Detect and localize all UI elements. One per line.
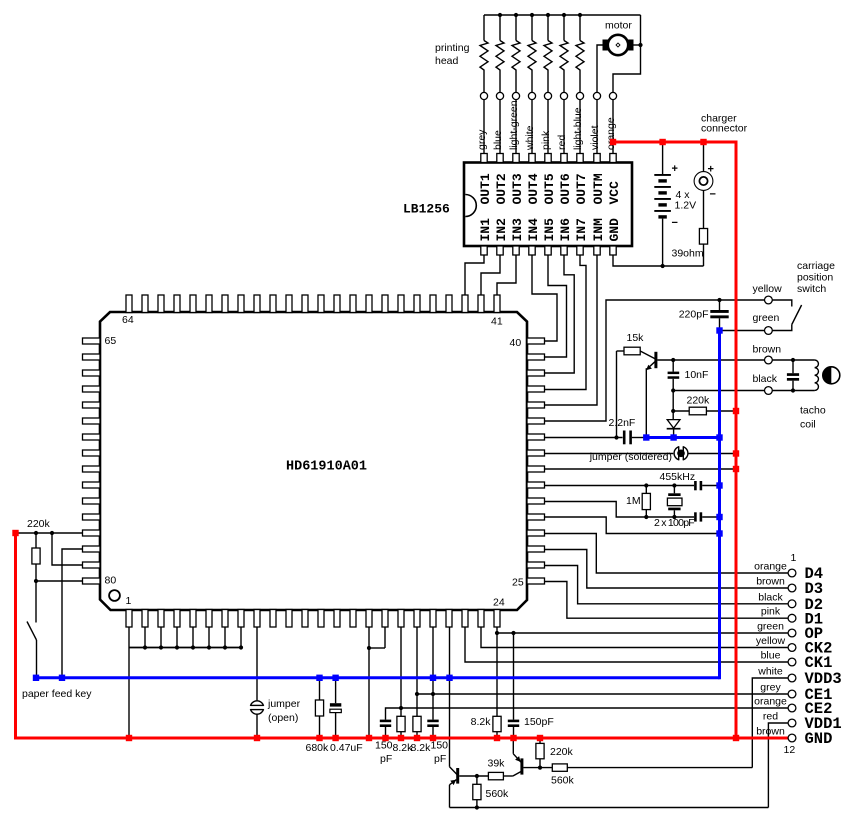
red wire left top end square bbox=[12, 530, 18, 536]
pin 1 marker circle bbox=[109, 590, 120, 601]
blue wire 2.2nF row bbox=[644, 436, 720, 439]
svg-text:coil: coil bbox=[800, 419, 816, 431]
battery B1 4x1.2V bbox=[654, 174, 671, 176]
resistor 220k (bottom) bbox=[539, 739, 541, 743]
svg-text:carriage: carriage bbox=[797, 260, 835, 272]
resistor 1M bbox=[645, 486, 647, 494]
svg-text:1M: 1M bbox=[626, 495, 641, 507]
svg-text:IN7: IN7 bbox=[574, 218, 589, 241]
junction 1M top bbox=[644, 483, 648, 487]
junction 1M bottom bbox=[644, 515, 648, 519]
jumper (soldered) J2 bbox=[674, 446, 688, 460]
tacho coil L1 bbox=[815, 360, 819, 390]
connector pin circle x=613 bbox=[609, 92, 616, 99]
svg-text:65: 65 bbox=[105, 335, 117, 347]
wire 560k to VDD3 column bbox=[567, 767, 752, 769]
LB1256 top pin OUT5 bbox=[545, 154, 551, 163]
resistor printing-head R1 bbox=[483, 15, 485, 41]
wire 39k to Q2 collector bbox=[503, 775, 513, 777]
wire top bus to motor right brush and orange column bbox=[613, 15, 641, 92]
resistor printing-head R5 bbox=[547, 15, 549, 41]
red wire right vertical bbox=[735, 141, 738, 740]
svg-text:jumper (soldered): jumper (soldered) bbox=[589, 451, 672, 463]
capacitor 10nF bbox=[672, 360, 674, 372]
svg-text:IN5: IN5 bbox=[542, 218, 557, 242]
LB1256 top pin OUT2 bbox=[497, 154, 503, 163]
junction tacho cap top bbox=[791, 358, 795, 362]
junction motor right brush bbox=[638, 43, 642, 47]
svg-text:paper feed key: paper feed key bbox=[22, 688, 92, 700]
wire pin 26 to D2 bbox=[545, 566, 789, 604]
svg-text:1: 1 bbox=[791, 552, 797, 564]
connector pin VDD1 bbox=[788, 719, 796, 727]
junction tacho cap bottom bbox=[791, 388, 795, 392]
svg-text:yellow: yellow bbox=[756, 635, 786, 647]
resistor 220k (top left) bbox=[35, 533, 37, 548]
connector pin circle x=548 bbox=[544, 92, 551, 99]
LB1256 top pin OUTM bbox=[594, 154, 600, 163]
svg-text:white: white bbox=[757, 666, 783, 678]
svg-text:2 x 100pF: 2 x 100pF bbox=[654, 517, 694, 529]
connector pin circle x=597 bbox=[593, 92, 600, 99]
resistor 8.2k (2) bbox=[416, 694, 418, 716]
junction 15k tap bbox=[614, 435, 618, 439]
svg-text:560k: 560k bbox=[486, 788, 510, 800]
svg-text:OUT1: OUT1 bbox=[478, 173, 493, 204]
svg-text:brown: brown bbox=[753, 344, 782, 356]
wire pin 77 row (black part) bbox=[16, 532, 83, 534]
wire CE1 row bbox=[417, 693, 788, 695]
svg-text:pink: pink bbox=[761, 606, 781, 618]
connector pin CE2 bbox=[788, 704, 796, 712]
svg-text:15k: 15k bbox=[627, 332, 645, 344]
connector pin circle x=484 bbox=[480, 92, 487, 99]
junction Q2 base / 220k bbox=[538, 766, 542, 770]
junction resonator bottom bbox=[672, 515, 676, 519]
svg-text:−: − bbox=[710, 189, 716, 201]
capacitor 0.47uF bbox=[335, 678, 337, 703]
svg-text:IN3: IN3 bbox=[510, 218, 525, 242]
svg-text:0.47uF: 0.47uF bbox=[330, 742, 363, 754]
wire pin 35 to yellow switch row bbox=[545, 300, 765, 421]
LB1256 bottom pin IN7 bbox=[577, 246, 583, 255]
resistor 680k bbox=[319, 678, 321, 700]
wire pin 28 to D4 bbox=[545, 534, 789, 574]
junction Q1 base / 560k bbox=[475, 774, 479, 778]
svg-text:220k: 220k bbox=[27, 518, 51, 530]
LB1256 top pin VCC bbox=[610, 154, 616, 163]
red wire bottom bbox=[15, 737, 788, 740]
resistor 8.2k (1) bbox=[400, 708, 402, 716]
LB1256 bottom pin IN5 bbox=[545, 246, 551, 255]
junction battery minus on GND bus bbox=[661, 264, 665, 268]
connector pin D1 bbox=[788, 614, 796, 622]
svg-text:IN6: IN6 bbox=[558, 218, 573, 242]
HD61910A01 top pins 64-41 bbox=[126, 295, 132, 313]
svg-text:switch: switch bbox=[797, 283, 826, 295]
junction 220pF top bbox=[717, 298, 721, 302]
svg-text:OUT5: OUT5 bbox=[542, 173, 557, 204]
transistor Q3 bbox=[640, 351, 655, 359]
svg-text:orange: orange bbox=[754, 696, 787, 708]
svg-text:+: + bbox=[672, 163, 678, 175]
wire pin 20 down bbox=[432, 627, 434, 694]
wire pin 21 to Q1 collector bbox=[449, 627, 451, 767]
svg-text:IN4: IN4 bbox=[526, 218, 541, 242]
resistor printing-head R4 bbox=[531, 15, 533, 41]
junction pin 80 row bbox=[34, 579, 38, 583]
wire Q3 emitter to blue node bbox=[645, 368, 647, 437]
LB1256 bottom pin IN4 bbox=[529, 246, 535, 255]
svg-text:motor: motor bbox=[605, 20, 632, 32]
svg-text:24: 24 bbox=[493, 597, 505, 609]
svg-text:10nF: 10nF bbox=[685, 369, 709, 381]
junction 220k top-left bbox=[34, 531, 38, 535]
wire pin 34 to 2.2nF bbox=[545, 437, 623, 439]
svg-text:tacho: tacho bbox=[800, 405, 826, 417]
connector pin circle x=564 bbox=[560, 92, 567, 99]
wire IN5 to pin 39 bbox=[545, 256, 567, 358]
IC U2 LB1256 body bbox=[464, 163, 632, 247]
svg-text:220k: 220k bbox=[550, 746, 574, 758]
svg-text:OUT3: OUT3 bbox=[510, 173, 525, 204]
connector pin D2 bbox=[788, 600, 796, 608]
svg-text:560k: 560k bbox=[551, 775, 575, 787]
resistor 8.2k (3) bbox=[496, 633, 498, 716]
wire pin 23 to CK2 bbox=[481, 627, 788, 648]
wire Q2 base row bbox=[523, 767, 552, 769]
resistor 220k (mid right) bbox=[673, 410, 689, 412]
transistor Q2 bbox=[512, 739, 514, 754]
wire INM to pin 36 bbox=[545, 256, 598, 406]
capacitor 2.2nF bbox=[623, 431, 626, 445]
svg-text:(open): (open) bbox=[268, 712, 298, 724]
svg-text:violet: violet bbox=[589, 125, 601, 150]
LB1256 bottom pin IN1 bbox=[481, 246, 487, 255]
svg-text:GND: GND bbox=[607, 218, 622, 242]
svg-text:680k: 680k bbox=[306, 742, 330, 754]
svg-text:yellow: yellow bbox=[753, 283, 783, 295]
transistor Q1 bbox=[450, 767, 458, 775]
capacitor tacho bbox=[792, 360, 794, 373]
svg-text:80: 80 bbox=[105, 575, 117, 587]
wire 10nF bottom to tacho black row bbox=[673, 390, 764, 392]
resistor printing-head R3 bbox=[515, 15, 517, 41]
resistor printing-head R7 bbox=[579, 15, 581, 41]
wire VDD3 white column bbox=[752, 678, 788, 768]
wire pin 22 to CK1 bbox=[465, 627, 788, 662]
LB1256 bottom pin IN2 bbox=[497, 246, 503, 255]
HD61910A01 bottom pins 1-24 bbox=[126, 610, 132, 628]
junction 10nF bottom bbox=[671, 388, 675, 392]
wire pin 31 455kHz row bbox=[545, 485, 695, 487]
wire pin 18 down bbox=[400, 627, 402, 708]
svg-text:39ohm: 39ohm bbox=[672, 248, 704, 260]
svg-text:red: red bbox=[556, 135, 568, 150]
carriage switch yellow contact bbox=[765, 296, 773, 304]
LB1256 bottom pin INM bbox=[594, 246, 600, 255]
junction resonator top bbox=[672, 483, 676, 487]
wire Q1 base bbox=[459, 775, 488, 777]
resistor 15k bbox=[617, 350, 625, 352]
svg-text:grey: grey bbox=[476, 129, 488, 150]
connector pin D3 bbox=[788, 584, 796, 592]
svg-text:455kHz: 455kHz bbox=[660, 471, 696, 483]
svg-text:IN2: IN2 bbox=[494, 218, 509, 242]
svg-text:40: 40 bbox=[510, 337, 522, 349]
svg-text:OUT2: OUT2 bbox=[494, 173, 509, 204]
HD61910A01 left pins 65-80 bbox=[83, 338, 101, 344]
wire node to 220k and diode bbox=[672, 391, 674, 420]
junction pins 16/17 bbox=[367, 646, 371, 650]
resistor printing-head R6 bbox=[563, 15, 565, 41]
svg-text:+: + bbox=[708, 164, 714, 176]
svg-text:12: 12 bbox=[784, 744, 796, 756]
svg-text:39k: 39k bbox=[488, 758, 506, 770]
wire IN1 to pin 43 bbox=[465, 256, 484, 296]
svg-text:OUT7: OUT7 bbox=[574, 173, 589, 204]
resistor 560k (1) bbox=[476, 776, 478, 784]
wire pin 33 to soldered jumper bbox=[545, 453, 674, 455]
svg-text:pink: pink bbox=[540, 130, 552, 150]
svg-text:red: red bbox=[763, 711, 778, 723]
red junction squares bbox=[610, 139, 616, 145]
connector pin circle x=580 bbox=[576, 92, 583, 99]
junction 10nF top bbox=[671, 358, 675, 362]
svg-text:150pF: 150pF bbox=[524, 716, 554, 728]
junction pin19/8.2k/CE1 bbox=[415, 692, 419, 696]
connector pin circle x=516 bbox=[512, 92, 519, 99]
svg-text:green: green bbox=[757, 621, 784, 633]
svg-text:220k: 220k bbox=[687, 395, 711, 407]
svg-text:IN1: IN1 bbox=[478, 218, 493, 242]
wire to pin 80 bbox=[36, 580, 83, 582]
wire VDD1 red column bbox=[768, 723, 788, 808]
wire IN6 to pin 38 bbox=[545, 256, 575, 374]
connector pin circle x=532 bbox=[528, 92, 535, 99]
wire bottom bus pins 1-8 bbox=[128, 627, 130, 648]
wire printing head top bus bbox=[484, 14, 641, 16]
HD61910A01 right pins 40-25 bbox=[527, 338, 545, 344]
carriage switch green contact and blade bbox=[765, 327, 773, 335]
svg-text:orange: orange bbox=[754, 561, 787, 573]
wire IN2 to pin 42 bbox=[481, 256, 500, 296]
svg-text:INM: INM bbox=[591, 218, 606, 242]
svg-text:8.2k: 8.2k bbox=[411, 742, 432, 754]
LB1256 bottom pin IN3 bbox=[513, 246, 519, 255]
junction pin20 cap bbox=[431, 692, 435, 696]
svg-text:150: 150 bbox=[375, 740, 393, 752]
wire pin 24 to OP row bbox=[497, 627, 788, 633]
LB1256 top pin OUT4 bbox=[529, 154, 535, 163]
wire pin 32 to red net bbox=[545, 468, 736, 470]
wire 15k tap to 2.2nF row bbox=[616, 351, 618, 438]
svg-text:light-green: light-green bbox=[508, 100, 520, 150]
red wire left vertical bbox=[14, 533, 17, 740]
connector pin CK1 bbox=[788, 658, 796, 666]
svg-text:HD61910A01: HD61910A01 bbox=[286, 460, 367, 475]
connector pin CK2 bbox=[788, 644, 796, 652]
svg-text:1: 1 bbox=[126, 595, 132, 607]
svg-text:brown: brown bbox=[756, 576, 785, 588]
wire VCC battery bus (black stub) bbox=[662, 144, 664, 174]
svg-text:pF: pF bbox=[434, 753, 446, 765]
connector pin GND bbox=[788, 734, 796, 742]
junction pin18/8.2k/CE2 bbox=[399, 706, 403, 710]
junction pin79 branch bbox=[50, 531, 54, 535]
svg-text:blue: blue bbox=[492, 130, 504, 150]
paper feed key S1 bbox=[35, 581, 37, 623]
svg-text:41: 41 bbox=[491, 316, 503, 328]
resonator 455kHz X1 bbox=[673, 486, 675, 494]
svg-text:green: green bbox=[753, 312, 780, 324]
svg-text:head: head bbox=[435, 55, 459, 67]
junction dots on top bus bbox=[498, 13, 502, 17]
wire Q1 emitter to bottom rail bbox=[449, 785, 451, 808]
svg-text:−: − bbox=[672, 217, 678, 229]
capacitor 220pF bbox=[719, 300, 721, 310]
motor M1 bbox=[608, 35, 628, 55]
connector pin VDD3 bbox=[788, 674, 796, 682]
wire to pin 79 bbox=[52, 533, 83, 565]
junction 220k left bbox=[671, 409, 675, 413]
wire pin 30 to resonator bottom row bbox=[545, 502, 695, 518]
connector pin circle x=500 bbox=[496, 92, 503, 99]
red wire VCC top bbox=[613, 141, 736, 144]
blue junction squares bbox=[33, 675, 39, 681]
LB1256 top pin OUT7 bbox=[577, 154, 583, 163]
junction dots bottom bus bbox=[143, 645, 147, 649]
svg-text:white: white bbox=[524, 125, 536, 151]
wire IN7 to pin 37 bbox=[545, 256, 587, 390]
svg-text:8.2k: 8.2k bbox=[471, 716, 492, 728]
LB1256 bottom pin IN6 bbox=[561, 246, 567, 255]
svg-text:220pF: 220pF bbox=[679, 309, 709, 321]
wire IN3 to pin 41 bbox=[497, 256, 516, 296]
junction OP/8.2k bbox=[495, 631, 499, 635]
wire CE2 row bbox=[386, 708, 789, 720]
tacho disc bbox=[823, 367, 840, 384]
LB1256 top pin OUT3 bbox=[513, 154, 519, 163]
capacitor 150pF (2) bbox=[432, 694, 434, 720]
svg-text:64: 64 bbox=[122, 314, 134, 326]
svg-text:150: 150 bbox=[431, 740, 449, 752]
diode D1 bbox=[667, 420, 680, 429]
svg-text:1.2V: 1.2V bbox=[675, 200, 697, 212]
svg-text:position: position bbox=[797, 272, 833, 284]
wire IN4 to pin 40 bbox=[532, 256, 557, 342]
wire Q3 base to tacho brown row bbox=[657, 359, 764, 361]
connector pin D4 bbox=[788, 569, 796, 577]
blue wire vertical bbox=[718, 329, 721, 679]
svg-text:jumper: jumper bbox=[267, 698, 301, 710]
capacitor 150pF (1) bbox=[380, 720, 391, 723]
svg-text:OUT4: OUT4 bbox=[526, 173, 541, 204]
resistor 39ohm bbox=[699, 229, 707, 245]
svg-text:pF: pF bbox=[380, 753, 392, 765]
svg-text:grey: grey bbox=[760, 682, 781, 694]
connector pin CE1 bbox=[788, 690, 796, 698]
svg-text:LB1256: LB1256 bbox=[403, 202, 450, 217]
svg-text:black: black bbox=[758, 591, 783, 603]
junction 560k bottom rail bbox=[475, 805, 479, 809]
wire pin 1 column to red net bbox=[129, 647, 241, 649]
wire pins 16+17 to red net bbox=[384, 627, 386, 648]
tacho black contact bbox=[765, 387, 773, 395]
wire pin 29 to blue net bbox=[545, 517, 720, 534]
svg-text:brown: brown bbox=[756, 726, 785, 738]
LB1256 bottom pin GND bbox=[610, 246, 616, 255]
wire pin 9 to jumper open bbox=[256, 627, 258, 700]
svg-text:OUTM: OUTM bbox=[591, 173, 606, 204]
wire to pin 78 / blue net bbox=[62, 549, 83, 678]
jumper (open) J3 bbox=[250, 701, 263, 714]
svg-text:printing: printing bbox=[435, 42, 470, 54]
tacho brown contact bbox=[765, 356, 773, 364]
svg-text:light-blue: light-blue bbox=[572, 107, 584, 150]
svg-text:OUT6: OUT6 bbox=[558, 173, 573, 204]
capacitor 100pF (a) bbox=[694, 481, 697, 490]
connector pin OP bbox=[788, 629, 796, 637]
wire pin 27 to D3 bbox=[545, 550, 789, 589]
wire pin 25 to D1 bbox=[545, 582, 789, 619]
LB1256 top pin OUT1 bbox=[481, 154, 487, 163]
svg-text:blue: blue bbox=[761, 650, 781, 662]
blue wire VDD3 net horizontal bbox=[36, 676, 720, 679]
LB1256 top pin OUT6 bbox=[561, 154, 567, 163]
svg-text:VCC: VCC bbox=[607, 181, 622, 205]
resistor 39k bbox=[488, 772, 503, 779]
svg-text:GND: GND bbox=[805, 730, 833, 748]
svg-text:25: 25 bbox=[512, 577, 524, 589]
wire GND bus LB1256 to charger bbox=[613, 256, 704, 267]
svg-text:black: black bbox=[753, 373, 778, 385]
svg-text:connector: connector bbox=[701, 123, 748, 135]
capacitor 150pF (4) bbox=[513, 633, 515, 720]
wire bottom rail bbox=[450, 807, 769, 809]
resistor printing-head R2 bbox=[499, 15, 501, 41]
charger connector J1 bbox=[703, 144, 705, 172]
junction OP/150pF bbox=[511, 631, 515, 635]
capacitor 100pF (b) bbox=[694, 512, 697, 521]
wire pin 19 down bbox=[416, 627, 418, 694]
svg-text:2.2nF: 2.2nF bbox=[609, 417, 636, 429]
wire motor left brush to violet column bbox=[597, 45, 603, 92]
IC U3 HD61910A01 body bbox=[100, 312, 527, 610]
resistor 560k (2) bbox=[552, 764, 567, 771]
